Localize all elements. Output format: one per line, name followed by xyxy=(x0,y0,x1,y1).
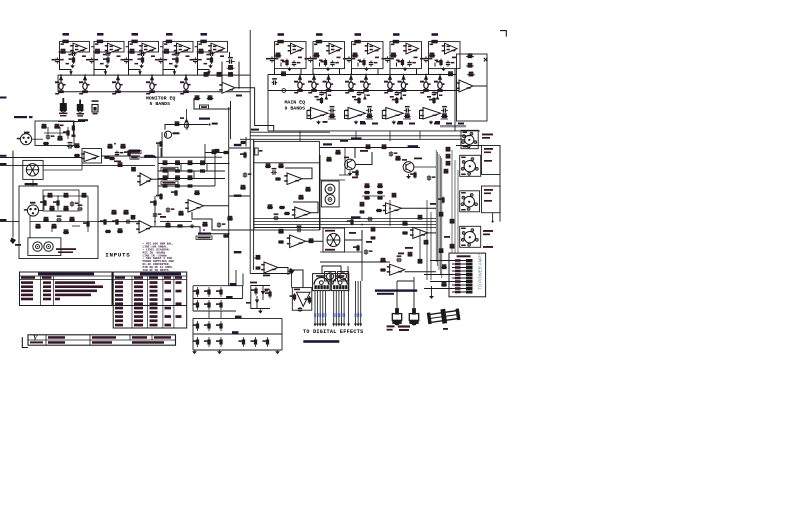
capacitor C46 xyxy=(427,175,436,181)
ground xyxy=(364,67,369,71)
node xyxy=(318,41,320,43)
resistor R59 xyxy=(53,200,59,206)
label xyxy=(458,123,464,125)
label xyxy=(52,59,57,61)
wire xyxy=(431,286,433,295)
wire xyxy=(405,271,436,273)
capacitor C42 xyxy=(273,213,279,220)
label xyxy=(78,119,88,121)
wire xyxy=(254,257,258,259)
node xyxy=(60,74,62,76)
ground xyxy=(363,94,370,100)
resistor R83 xyxy=(162,175,168,179)
resistor R77 xyxy=(187,160,193,164)
label xyxy=(355,33,362,36)
wire xyxy=(58,121,85,123)
wire xyxy=(221,62,223,83)
connector J7 xyxy=(327,273,334,280)
label xyxy=(435,121,440,123)
wire xyxy=(158,178,225,180)
capacitor C47 xyxy=(298,307,302,312)
resistor R66 xyxy=(35,224,41,228)
capacitor C2 xyxy=(55,57,64,63)
wire xyxy=(235,88,274,131)
wire xyxy=(390,42,422,69)
label xyxy=(434,123,440,125)
wire xyxy=(335,291,338,327)
ground xyxy=(275,350,280,354)
wire xyxy=(339,174,350,176)
resistor R123 xyxy=(381,144,387,148)
boxed resistor xyxy=(161,167,178,170)
wire xyxy=(268,74,456,76)
wire xyxy=(312,69,314,75)
capacitor C22 xyxy=(272,78,278,85)
capacitor C27 xyxy=(395,91,399,96)
wire xyxy=(254,218,436,220)
label xyxy=(172,54,175,56)
op-amp U20 xyxy=(136,221,151,234)
label xyxy=(276,44,279,46)
label xyxy=(384,92,388,94)
label xyxy=(420,92,424,94)
wire xyxy=(347,266,349,281)
label xyxy=(398,325,410,327)
wire xyxy=(87,196,89,232)
op-amp U22 xyxy=(292,207,311,219)
resistor R154 xyxy=(216,321,222,331)
wire xyxy=(430,212,432,280)
wire xyxy=(389,200,391,226)
connector J10 (DIN) xyxy=(331,274,349,291)
wire xyxy=(0,164,155,166)
label xyxy=(263,275,270,277)
capacitor C43 xyxy=(296,225,302,232)
wire xyxy=(167,171,169,179)
resistor R172 xyxy=(347,219,353,226)
resistor R67 xyxy=(51,224,57,228)
label xyxy=(408,49,411,51)
resistor R128 xyxy=(377,191,383,193)
wire xyxy=(32,180,34,187)
node xyxy=(203,229,205,231)
diode D2 xyxy=(255,296,259,308)
wire xyxy=(228,107,230,286)
op-amp U19 xyxy=(137,173,151,186)
resistor R108 xyxy=(275,178,281,180)
label xyxy=(29,116,33,118)
ground xyxy=(354,121,359,125)
resistor R121 xyxy=(410,172,416,179)
wire xyxy=(429,42,461,69)
resistor R111 xyxy=(279,206,285,208)
resistor R101 xyxy=(240,152,246,159)
wire xyxy=(300,69,302,75)
connector pins xyxy=(452,259,473,294)
wire xyxy=(250,285,252,309)
fader pot VR10 xyxy=(360,75,371,92)
label xyxy=(352,96,356,98)
node xyxy=(167,221,169,223)
label xyxy=(129,150,140,153)
wire xyxy=(58,74,242,76)
node xyxy=(403,74,405,76)
boxed resistor xyxy=(129,151,141,154)
label xyxy=(360,150,368,152)
label xyxy=(398,253,404,255)
wire xyxy=(299,131,301,142)
label xyxy=(430,203,436,205)
boxed resistor xyxy=(200,105,209,109)
op-amp U26 xyxy=(387,264,405,275)
capacitor C5 xyxy=(140,52,146,56)
label xyxy=(151,55,155,57)
node xyxy=(282,89,286,93)
resistor R119 xyxy=(352,170,358,177)
resistor R178 xyxy=(150,200,156,207)
wire xyxy=(316,291,319,327)
label xyxy=(114,161,121,163)
resistor R11 xyxy=(163,49,170,54)
wire xyxy=(193,317,282,319)
wire xyxy=(19,186,98,259)
label xyxy=(226,296,233,299)
label xyxy=(135,63,139,65)
capacitor C50 xyxy=(153,212,162,218)
wire xyxy=(267,91,269,131)
resistor R91 xyxy=(171,190,177,196)
resistor R180 xyxy=(177,225,183,227)
resistor R161 xyxy=(251,287,257,296)
node xyxy=(328,74,330,76)
wire xyxy=(126,46,130,48)
label xyxy=(331,49,334,51)
junction arrow xyxy=(207,71,211,75)
wire xyxy=(193,333,282,335)
wire xyxy=(457,170,459,253)
wire xyxy=(339,69,341,75)
ground xyxy=(105,64,110,68)
wire xyxy=(285,168,312,179)
label xyxy=(314,44,317,46)
wire xyxy=(229,195,251,197)
wire xyxy=(361,230,363,281)
label xyxy=(155,59,160,61)
wire xyxy=(0,221,19,223)
pot arrow xyxy=(184,118,188,128)
label xyxy=(375,289,417,291)
resistor R65 xyxy=(69,217,75,221)
resistor R117 xyxy=(335,150,341,154)
wire xyxy=(320,179,345,181)
resistor R6 xyxy=(103,56,109,64)
resistor R9 xyxy=(138,56,144,64)
resistor R166 xyxy=(360,211,365,213)
wire xyxy=(389,69,391,75)
label xyxy=(408,46,411,48)
capacitor C29 xyxy=(432,91,436,96)
resistor R63 xyxy=(63,206,69,210)
label xyxy=(443,328,448,330)
resistor R99 xyxy=(111,210,117,214)
wire xyxy=(253,139,255,270)
wire xyxy=(437,152,439,266)
wire xyxy=(351,69,353,75)
node xyxy=(439,74,441,76)
label xyxy=(351,216,361,218)
capacitor C1 xyxy=(71,52,77,56)
node xyxy=(185,74,187,76)
capacitor C40 xyxy=(217,222,226,228)
label xyxy=(234,251,242,253)
capacitor C20 xyxy=(446,60,455,66)
op-amp U1 xyxy=(70,43,86,54)
wire xyxy=(403,118,411,120)
node xyxy=(155,156,157,158)
label xyxy=(30,202,36,204)
wire xyxy=(416,69,418,75)
resistor R4 xyxy=(97,40,103,43)
wire xyxy=(362,195,385,197)
capacitor C11 xyxy=(226,57,235,64)
op-amp U11 xyxy=(442,43,457,54)
label xyxy=(352,177,358,179)
op-amp U14 xyxy=(345,108,365,120)
resistor R29 xyxy=(352,53,359,58)
rotary pot VR15 xyxy=(461,130,478,148)
resistor R3 xyxy=(69,56,75,64)
resistor R95 xyxy=(117,228,123,232)
wire xyxy=(396,281,398,308)
wire xyxy=(419,230,421,260)
wire xyxy=(94,41,124,52)
ground xyxy=(403,67,408,71)
wire xyxy=(12,151,14,158)
wire xyxy=(152,227,229,234)
resistor R48 xyxy=(429,97,435,104)
resistor R110 xyxy=(267,204,273,208)
wire xyxy=(160,148,162,157)
label xyxy=(430,44,433,46)
resistor R96 xyxy=(105,230,111,232)
wire xyxy=(129,41,159,52)
resistor R25 xyxy=(316,40,322,43)
wire xyxy=(205,152,229,154)
node xyxy=(43,195,45,197)
node xyxy=(361,224,363,226)
label xyxy=(15,244,21,246)
capacitor C12 xyxy=(292,60,301,66)
label xyxy=(397,123,403,125)
connector J8 xyxy=(340,273,347,280)
label xyxy=(358,60,362,62)
ground xyxy=(287,67,292,71)
connector J3 (jack) xyxy=(33,242,42,251)
label xyxy=(199,118,210,120)
arrow xyxy=(10,238,16,245)
resistor R183 xyxy=(175,121,180,125)
label xyxy=(112,93,116,95)
wire xyxy=(67,127,69,139)
resistor R17 xyxy=(216,72,223,76)
wire xyxy=(354,281,357,327)
op-amp U4 xyxy=(174,43,190,54)
node xyxy=(350,74,352,76)
label xyxy=(370,46,373,48)
resistor R179 xyxy=(165,223,171,227)
label xyxy=(198,233,211,235)
label xyxy=(213,46,216,48)
resistor R120 xyxy=(395,156,401,160)
wire xyxy=(389,131,391,142)
wire xyxy=(340,291,343,327)
resistor R89 xyxy=(156,193,162,200)
label xyxy=(360,121,365,123)
wire xyxy=(268,90,460,92)
resistor R156 xyxy=(204,337,210,347)
node xyxy=(299,74,301,76)
connector J1 (XLR) xyxy=(17,134,32,145)
fader pot VR7 xyxy=(308,75,319,92)
label xyxy=(293,49,296,51)
resistor R85 xyxy=(187,175,193,179)
resistor R32 xyxy=(390,53,397,58)
ground xyxy=(429,121,434,125)
wire xyxy=(278,268,288,276)
label xyxy=(337,57,341,59)
wire xyxy=(158,163,229,165)
junction arrow xyxy=(138,71,142,75)
resistor R129 xyxy=(377,197,383,199)
resistor R140 xyxy=(439,212,444,216)
resistor R80 xyxy=(175,170,181,172)
wire xyxy=(338,272,349,282)
boxed resistor xyxy=(161,181,178,184)
resistor R133 xyxy=(380,258,386,262)
wire xyxy=(154,196,156,226)
fader pot VR11 xyxy=(384,75,395,92)
resistor R58 xyxy=(40,200,46,206)
wire xyxy=(161,132,163,157)
capacitor C9 xyxy=(209,52,215,56)
junction arrow xyxy=(173,71,177,75)
wire xyxy=(30,221,98,223)
resistor R19 xyxy=(227,72,235,76)
wire xyxy=(47,127,49,134)
label xyxy=(294,289,300,291)
label xyxy=(345,92,349,94)
label xyxy=(382,58,387,60)
wire xyxy=(324,291,327,327)
capacitor C33 xyxy=(70,201,79,207)
switch SW3 xyxy=(92,100,99,114)
resistor R90 xyxy=(178,211,184,215)
wire xyxy=(35,121,74,146)
label xyxy=(160,216,166,218)
wire xyxy=(451,150,453,253)
signal labels xyxy=(314,313,361,317)
resistor R26 xyxy=(313,53,320,58)
capacitor C44 xyxy=(389,151,398,157)
resistor R144 xyxy=(441,264,447,268)
resistor R141 xyxy=(450,219,455,223)
resistor R14 xyxy=(198,49,205,54)
node xyxy=(168,41,170,43)
label xyxy=(331,46,334,48)
resistor R69 xyxy=(63,229,69,233)
table 2 xyxy=(113,272,187,328)
label xyxy=(323,121,328,123)
label xyxy=(447,46,450,48)
capacitor C48 xyxy=(367,217,373,221)
resistor R35 xyxy=(429,53,436,58)
label xyxy=(482,137,490,139)
wire xyxy=(238,62,240,88)
notes text xyxy=(143,243,174,272)
connector J2 (XLR) xyxy=(24,205,39,216)
resistor R37 xyxy=(280,71,287,75)
node xyxy=(134,41,136,43)
wire xyxy=(193,310,236,312)
wire xyxy=(382,111,386,119)
wire xyxy=(39,210,43,212)
label xyxy=(110,49,113,51)
resistor R27 xyxy=(321,59,327,67)
label xyxy=(446,123,452,125)
node xyxy=(203,41,205,43)
svg-text:INPUTS: INPUTS xyxy=(105,251,130,258)
resistor R155 xyxy=(193,337,199,347)
wire xyxy=(91,46,95,48)
label xyxy=(68,54,71,56)
fader pot VR12 xyxy=(398,75,409,92)
wire xyxy=(101,155,140,157)
resistor R75 xyxy=(162,160,168,164)
wire xyxy=(43,169,82,171)
wire xyxy=(240,138,470,140)
label xyxy=(246,302,251,304)
wire xyxy=(206,164,208,172)
resistor R165 xyxy=(360,202,365,206)
wire xyxy=(321,291,324,327)
resistor R145 xyxy=(441,282,447,286)
boxed resistor xyxy=(130,156,139,159)
ground xyxy=(429,295,434,299)
label xyxy=(370,49,373,51)
resistor R44 xyxy=(354,97,360,104)
op-amp U24 xyxy=(383,203,402,214)
wire xyxy=(158,185,215,187)
wire xyxy=(337,291,340,327)
resistor R74 xyxy=(117,162,123,166)
wire xyxy=(293,202,318,213)
wire xyxy=(192,318,194,350)
label xyxy=(452,57,456,59)
label xyxy=(482,134,493,136)
wire xyxy=(44,195,88,197)
op-amp U16 xyxy=(420,108,440,120)
label xyxy=(360,123,366,125)
capacitor C21 xyxy=(424,56,433,62)
label xyxy=(259,150,263,152)
resistor R23 xyxy=(275,53,282,58)
wire xyxy=(434,63,436,67)
wire xyxy=(424,274,452,276)
label xyxy=(60,125,64,127)
resistor R53 xyxy=(57,136,63,140)
label xyxy=(435,60,439,62)
resistor R139 xyxy=(438,197,444,204)
